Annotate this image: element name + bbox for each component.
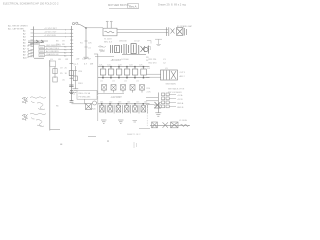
svg-text:C22: C22	[107, 64, 110, 66]
node A junction	[85, 27, 87, 29]
svg-text:SN72305N: SN72305N	[166, 83, 177, 85]
bus B1 ticks	[70, 30, 73, 56]
capacitor C24	[124, 67, 130, 78]
svg-text:R6: R6	[56, 106, 58, 108]
svg-text:4.7: 4.7	[84, 64, 88, 66]
resistor R1	[85, 41, 88, 47]
svg-text:ELECTRICAL SCHEMATIC HP 150: ELECTRICAL SCHEMATIC HP 150 FOLD CO 2	[3, 1, 59, 5]
wire lower	[96, 56, 114, 58]
capacitor C23	[116, 67, 122, 78]
rectifier labels	[99, 47, 149, 62]
connector pin number marks	[27, 45, 29, 59]
resistor R4	[53, 77, 57, 82]
svg-text:25: 25	[65, 68, 68, 70]
svg-text:T1 115V: T1 115V	[104, 39, 112, 41]
transformer T1	[103, 28, 117, 36]
svg-text:R7: R7	[88, 58, 92, 60]
bracket marks	[147, 41, 151, 51]
svg-text:C46: C46	[144, 102, 147, 104]
svg-text:PN 0960-083: PN 0960-083	[79, 96, 92, 98]
lower-left labels of right block	[147, 88, 152, 94]
rail H1	[98, 66, 150, 68]
note text	[8, 24, 29, 30]
svg-text:17: 17	[27, 57, 29, 59]
bottom speck 1	[107, 140, 109, 141]
svg-text:SHEET 1 OF 2: SHEET 1 OF 2	[127, 134, 141, 136]
svg-text:.01: .01	[124, 81, 127, 83]
right notes	[168, 88, 185, 94]
svg-text:E1 SPARK GAP: E1 SPARK GAP	[177, 25, 193, 28]
svg-text:9: 9	[65, 36, 66, 38]
svg-text:P6: P6	[64, 49, 66, 51]
wire to connector	[146, 97, 158, 104]
svg-text:+5V A: +5V A	[177, 94, 183, 97]
rail H1 labels	[99, 64, 142, 66]
wire row 7	[45, 53, 72, 56]
center block left rail	[97, 54, 99, 95]
svg-text:A3: A3	[23, 36, 26, 39]
connector J1 body	[33, 27, 35, 58]
svg-text:A5: A5	[23, 42, 26, 45]
capacitor C29	[121, 85, 126, 93]
svg-text:AC LINE BRN: AC LINE BRN	[46, 50, 59, 53]
regulator VR1 text	[79, 92, 92, 98]
svg-text:.01: .01	[112, 81, 115, 83]
ground G3	[101, 120, 107, 124]
svg-text:GND SENSE RT: GND SENSE RT	[46, 45, 62, 47]
op-amp U1 labels	[165, 68, 185, 85]
svg-text:GND A: GND A	[177, 102, 184, 105]
inductor L9	[181, 124, 189, 126]
wire to U1	[146, 74, 161, 77]
capacitor C45	[133, 105, 139, 113]
svg-text:C45: C45	[136, 102, 139, 104]
wire row 1	[34, 28, 72, 30]
svg-text:.01: .01	[88, 48, 92, 50]
svg-text:.1: .1	[77, 64, 80, 66]
regulator box VR1	[77, 91, 97, 100]
svg-text:.01: .01	[136, 81, 139, 83]
capacitor C28	[111, 85, 116, 93]
arrow cluster on J1	[28, 40, 48, 44]
diode D2 labels	[78, 71, 84, 85]
svg-text:CR4: CR4	[78, 71, 83, 73]
svg-text:16: 16	[27, 54, 29, 56]
connector J2 row 1	[162, 93, 184, 97]
svg-text:.01: .01	[100, 81, 103, 83]
annotation scribble 2	[22, 113, 46, 126]
ground rail	[98, 93, 124, 95]
svg-text:C24: C24	[129, 64, 132, 66]
ground G4	[118, 120, 124, 124]
connector J2 row 3	[162, 101, 184, 105]
svg-text:2W: 2W	[90, 64, 93, 66]
connector J2 row 2	[162, 97, 184, 101]
relay K1 contact boxes	[39, 46, 45, 57]
rail H2 junction dots	[102, 77, 144, 79]
connector bubbles P2	[72, 22, 85, 28]
annotation scribble 1	[22, 97, 46, 110]
svg-text:+5V DIST: +5V DIST	[111, 59, 122, 62]
connector J1 pin stubs	[31, 30, 34, 56]
faint riser wire	[146, 108, 148, 126]
capacitor C26	[141, 67, 147, 78]
rail H2	[98, 77, 150, 79]
svg-text:C23: C23	[118, 64, 121, 66]
svg-text:WH: WH	[56, 44, 60, 46]
bottom speck 2	[134, 142, 137, 148]
svg-text:5: 5	[65, 29, 66, 31]
capacitor C7 symbol	[155, 39, 162, 46]
ground G2	[72, 89, 78, 93]
capacitor C21	[100, 67, 106, 78]
svg-text:C2: C2	[163, 63, 167, 65]
svg-text:-12 VDC OUT: -12 VDC OUT	[44, 32, 57, 34]
inductor L5 box	[50, 61, 56, 67]
svg-text:Drawn 29. 8. 69 s 2 mg: Drawn 29. 8. 69 s 2 mg	[158, 2, 186, 6]
surge arrester E1	[167, 27, 187, 36]
transistor Q1	[69, 64, 73, 79]
svg-text:B4: B4	[64, 55, 66, 57]
transformer T1 primary leads	[106, 21, 112, 28]
title block center	[108, 3, 129, 7]
svg-text:C44: C44	[127, 102, 130, 104]
op-amp U1	[161, 70, 178, 80]
capacitor C22	[108, 67, 114, 78]
svg-text:A9: A9	[23, 54, 26, 57]
bus labels	[56, 41, 66, 46]
svg-text:A2: A2	[23, 33, 26, 36]
svg-text:2.2K: 2.2K	[147, 92, 152, 94]
capacitor C46	[141, 105, 147, 113]
wire to transformer	[87, 27, 104, 29]
svg-text:R11 220: R11 220	[149, 59, 158, 61]
title block left	[3, 1, 59, 5]
svg-text:Rev A: Rev A	[129, 4, 137, 8]
svg-text:C4 2000: C4 2000	[121, 59, 129, 61]
wire pair to right	[117, 30, 168, 33]
ground G5	[133, 121, 138, 123]
capacitor C9 labels	[60, 68, 68, 82]
parts table right	[148, 59, 167, 70]
bottom rail stub	[139, 127, 150, 129]
svg-text:ADJ 2: ADJ 2	[180, 75, 185, 78]
node B junction	[70, 101, 74, 103]
svg-text:B2: B2	[64, 52, 66, 54]
capacitor C25	[132, 67, 138, 78]
connector foot dashes	[28, 45, 44, 58]
svg-text:C1: C1	[163, 59, 167, 61]
svg-text:L9 10UH: L9 10UH	[179, 120, 187, 122]
svg-text:7: 7	[65, 33, 66, 35]
diode D6	[163, 122, 169, 128]
wire row 5	[45, 47, 72, 50]
rail H2 labels	[100, 81, 139, 83]
svg-text:CHASSIS GN: CHASSIS GN	[46, 53, 59, 56]
svg-text:+5 VDC BUS: +5 VDC BUS	[44, 35, 56, 37]
branch line	[54, 67, 56, 79]
svg-text:.05: .05	[62, 80, 66, 82]
svg-text:A6: A6	[23, 45, 26, 48]
svg-text:R20: R20	[92, 109, 97, 111]
svg-text:C3 .02: C3 .02	[134, 41, 140, 43]
diode D7	[171, 122, 179, 128]
svg-text:A4: A4	[23, 39, 26, 42]
middle-left header labels	[51, 58, 94, 65]
svg-text:A1: A1	[23, 30, 26, 33]
svg-text:+5V: +5V	[76, 58, 80, 60]
svg-text:14: 14	[27, 48, 29, 50]
transformer T1 labels	[104, 39, 113, 44]
rail H3 junction dots	[101, 103, 144, 105]
rectifier cluster row	[111, 44, 149, 55]
bottom output wire	[150, 124, 190, 126]
branch line 2	[74, 66, 76, 89]
svg-text:MOTHER BD P/N: MOTHER BD P/N	[108, 3, 129, 7]
svg-text:C25: C25	[139, 64, 142, 66]
svg-text:REG +5V 3A: REG +5V 3A	[79, 92, 91, 95]
wire row 6	[45, 50, 72, 53]
resistor R6 label	[56, 106, 58, 108]
svg-text:+5V B: +5V B	[177, 99, 183, 101]
connector J2 row 4	[162, 105, 185, 109]
potentiometer R20	[86, 101, 97, 110]
svg-text:10K: 10K	[88, 43, 92, 45]
svg-text:ALL RES IN OHMS K: ALL RES IN OHMS K	[8, 24, 29, 27]
bottom speck 3	[60, 144, 62, 145]
svg-text:L5: L5	[51, 59, 54, 61]
rail H3	[98, 103, 150, 105]
capacitor C43	[116, 105, 122, 113]
svg-text:AC NEUT BLU: AC NEUT BLU	[46, 47, 60, 50]
junction dashes	[94, 54, 98, 57]
svg-text:A7: A7	[23, 48, 26, 51]
svg-text:1K: 1K	[65, 73, 68, 75]
svg-text:C9: C9	[60, 68, 63, 70]
wire row 4	[45, 45, 72, 47]
svg-text:SEE TABLE 4 FOR: SEE TABLE 4 FOR	[168, 88, 185, 91]
svg-text:-12V DIST: -12V DIST	[111, 96, 123, 99]
svg-text:15: 15	[27, 51, 29, 53]
capacitor C30	[130, 85, 135, 93]
wire junction to pot	[72, 103, 86, 105]
wire row 2	[34, 32, 72, 34]
resistor R3	[53, 69, 57, 74]
wire row 3	[34, 35, 72, 37]
svg-text:1N91: 1N91	[78, 83, 84, 85]
capacitor C44	[124, 105, 130, 113]
capacitor C41	[100, 105, 106, 113]
bus pin labels	[64, 29, 66, 57]
svg-text:A8: A8	[23, 51, 26, 54]
svg-text:C21: C21	[99, 64, 102, 66]
svg-text:BK: BK	[56, 41, 59, 43]
svg-text:R2: R2	[66, 59, 70, 61]
rectifier value labels	[119, 41, 140, 43]
svg-text:R14: R14	[147, 88, 152, 90]
svg-text:R12 470: R12 470	[149, 63, 158, 65]
svg-text:13: 13	[27, 45, 29, 47]
ground G1	[84, 57, 89, 58]
junction cluster	[154, 102, 161, 108]
svg-text:C2: C2	[73, 93, 76, 95]
rail H1 junction dots	[102, 66, 144, 68]
svg-text:GY: GY	[62, 41, 66, 43]
revision box	[109, 4, 139, 9]
wire vertical drop	[85, 28, 87, 57]
svg-text:C12: C12	[82, 58, 87, 60]
capacitor C10 blob	[69, 85, 74, 94]
left rail	[49, 60, 51, 131]
svg-text:C8: C8	[58, 59, 62, 61]
bus riser	[157, 93, 159, 113]
rail H3 labels	[100, 102, 147, 104]
diode D2	[73, 71, 77, 81]
svg-text:SEC 6.3: SEC 6.3	[104, 42, 113, 44]
resistor R1 labels	[80, 43, 92, 50]
connector J1 pin labels	[23, 30, 28, 60]
bottom dash	[88, 136, 96, 138]
bottom block left rail	[97, 96, 99, 122]
svg-text:P4: P4	[64, 46, 66, 48]
lead from VR1	[84, 99, 86, 104]
diode D5	[152, 122, 158, 128]
svg-text:GND B: GND B	[177, 107, 184, 109]
svg-text:PIN VOLTAGES: PIN VOLTAGES	[168, 91, 182, 94]
svg-text:R1: R1	[80, 43, 83, 45]
svg-text:R5: R5	[60, 73, 63, 75]
annotation scribble 3	[98, 46, 106, 52]
ground G6	[155, 113, 161, 116]
bottom left wire	[50, 129, 60, 131]
bus B1	[71, 26, 73, 101]
svg-text:OUT 5: OUT 5	[180, 72, 186, 74]
svg-text:+12 VDC RET: +12 VDC RET	[44, 28, 58, 30]
capacitor C31	[140, 85, 145, 93]
capacitor C27	[102, 85, 107, 93]
capacitor C42	[108, 105, 114, 113]
svg-text:L8: L8	[148, 68, 151, 70]
svg-text:CR6 180: CR6 180	[119, 41, 126, 43]
